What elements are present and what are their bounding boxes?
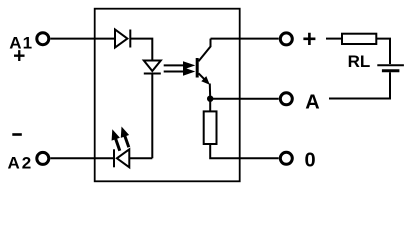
wire battery negative to terminal A side (329, 72, 390, 98)
svg-text:+: + (302, 26, 316, 53)
terminal A2 (37, 152, 49, 164)
phototransistor Q1 collector (199, 39, 211, 62)
wire indicator LED to LED column (129, 157, 152, 159)
phototransistor Q1 base bar (196, 58, 199, 78)
svg-text:RL: RL (348, 52, 371, 71)
component box (module outline) (95, 9, 240, 182)
battery BT1 negative plate (382, 69, 400, 72)
label minus (input polarity) (12, 133, 21, 136)
terminal 0 (280, 152, 292, 164)
wire A2 to indicator LED (50, 157, 114, 159)
indicator LED emission arrows (112, 127, 130, 151)
phototransistor Q1 emitter with arrow (199, 73, 210, 84)
svg-text:+: + (13, 44, 25, 67)
svg-text:0: 0 (304, 149, 315, 171)
diode D1 (series protection diode) (115, 30, 130, 48)
resistor RL (load) (342, 34, 376, 44)
wire emitter down to junction (209, 84, 211, 99)
wire terminal plus to load resistor RL (326, 38, 342, 40)
battery BT1 positive plate (377, 64, 404, 66)
svg-text:A2: A2 (8, 154, 34, 173)
wire junction down to resistor R1 (209, 99, 211, 112)
wire A1 to diode D1 (50, 38, 115, 40)
LED U1a (optocoupler emitter diode, pointing down) (144, 61, 161, 74)
svg-text:A: A (305, 92, 319, 114)
terminal A1 (37, 33, 49, 45)
terminal plus (280, 33, 292, 45)
LED D2 (status indicator, pointing left) (114, 149, 129, 167)
terminal A (280, 93, 292, 105)
wire LED cathode down to indicator row (151, 74, 153, 159)
resistor R1 (204, 111, 217, 144)
wire junction to terminal A (210, 98, 279, 100)
junction node dot (207, 96, 213, 102)
wire RL to battery positive (376, 39, 390, 64)
wire diode D1 to LED column (130, 39, 152, 61)
wire resistor R1 to terminal 0 (210, 144, 279, 158)
wire collector to terminal plus (211, 38, 279, 40)
light arrows (optocoupler coupling) (164, 61, 196, 75)
